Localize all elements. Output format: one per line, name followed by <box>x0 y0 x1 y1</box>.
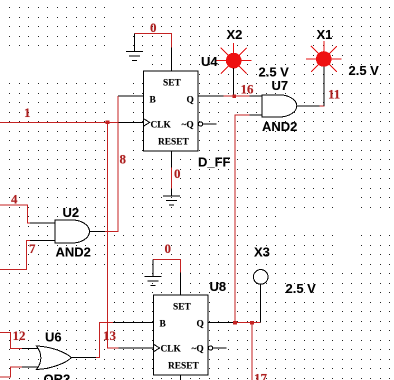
pin CLK stub <box>119 121 144 123</box>
wire U7 input B from U8 Q <box>235 115 250 322</box>
svg-text:U2: U2 <box>63 205 80 220</box>
svg-text:D_FF: D_FF <box>198 155 231 170</box>
junction net 17 b <box>250 321 254 325</box>
wire net 17 (U8 Q, X3, down) <box>234 323 261 380</box>
X1 pin stub <box>323 67 325 106</box>
pin B stub <box>118 95 144 97</box>
svg-text:16: 16 <box>241 81 255 96</box>
svg-text:OR2: OR2 <box>44 372 71 380</box>
U6 input stubs <box>22 348 40 350</box>
svg-text:0: 0 <box>165 241 172 256</box>
U7 output stub <box>297 105 320 107</box>
U8 pin Q stub <box>208 322 234 324</box>
svg-text:2.5 V: 2.5 V <box>286 281 317 296</box>
U6 output stub <box>72 357 97 359</box>
wire net 1 vertical down to U8 CLK <box>108 122 119 348</box>
pin ~Q stub <box>203 123 217 125</box>
AND gate U7 <box>250 95 320 117</box>
probe X3 <box>253 270 268 285</box>
wire net 4 entry <box>0 205 30 223</box>
X3 pin stub <box>260 284 262 322</box>
ground symbol above U8 <box>145 259 162 285</box>
U8 clock wedge <box>154 344 160 352</box>
ground symbol below top flip-flop <box>163 189 180 206</box>
U7 body <box>262 95 297 117</box>
U2 output stub <box>90 231 106 233</box>
svg-text:Q: Q <box>197 320 204 330</box>
svg-text:12: 12 <box>13 328 26 343</box>
svg-text:U7: U7 <box>272 78 289 93</box>
X2 pin stub <box>233 68 235 96</box>
U7 input stubs <box>250 95 263 97</box>
wire bottom entry to U6 input B <box>0 367 22 377</box>
svg-text:RESET: RESET <box>168 362 199 372</box>
wire net 7 entry <box>0 241 30 270</box>
U8 pin ~Q bubble <box>209 346 213 350</box>
svg-text:13: 13 <box>103 328 117 343</box>
svg-text:X3: X3 <box>254 245 270 260</box>
svg-text:7: 7 <box>29 241 36 256</box>
svg-text:B: B <box>150 96 156 106</box>
LED probe X1 <box>306 41 342 72</box>
U2 body <box>55 220 90 243</box>
svg-text:U4: U4 <box>201 54 218 69</box>
svg-text:CLK: CLK <box>151 121 172 131</box>
AND gate U2 <box>30 220 105 243</box>
svg-text:AND2: AND2 <box>262 119 297 134</box>
junction net 16 <box>232 94 236 98</box>
svg-text:X2: X2 <box>227 27 243 42</box>
D flip-flop U8 body <box>113 273 234 380</box>
junction net 1 <box>106 121 110 125</box>
svg-text:4: 4 <box>11 192 18 207</box>
wire net 0 mid (RESET to ground) <box>171 168 173 189</box>
svg-text:17: 17 <box>254 371 268 380</box>
LED probe X2 <box>216 43 252 74</box>
svg-text:2.5 V: 2.5 V <box>349 63 380 78</box>
junction net 17 a <box>233 321 237 325</box>
svg-text:Q: Q <box>187 96 194 106</box>
ground symbol top-left <box>126 34 143 61</box>
svg-text:11: 11 <box>328 87 340 102</box>
U8 pin SET stub <box>180 273 182 296</box>
svg-text:U8: U8 <box>210 279 227 294</box>
U6 body <box>37 346 72 370</box>
wire net 16 (Q to U7 input A) <box>224 95 250 97</box>
wire net 13 (U6 out to U8 B) <box>96 323 113 358</box>
svg-text:B: B <box>160 320 166 330</box>
svg-text:8: 8 <box>120 152 127 167</box>
wire net 11 (U7 out to X1) <box>320 104 325 106</box>
svg-text:CLK: CLK <box>161 345 182 355</box>
svg-text:SET: SET <box>163 79 181 89</box>
U8 pin B stub <box>113 322 154 324</box>
U8 pin RESET stub <box>180 375 182 380</box>
svg-text:X1: X1 <box>317 27 333 42</box>
svg-text:0: 0 <box>174 166 181 181</box>
pin SET stub <box>171 48 173 72</box>
wire net 0 top (ground to SET of top flip-flop) <box>134 34 171 48</box>
U2 input stubs <box>30 222 55 224</box>
svg-text:~Q: ~Q <box>192 345 204 355</box>
svg-text:SET: SET <box>173 303 191 313</box>
wire net 0 (U8 SET to ground) <box>153 259 181 272</box>
U8 pin CLK stub <box>119 347 154 349</box>
wire net 12 entry <box>0 332 22 348</box>
D flip-flop top (D_FF) body <box>118 48 224 168</box>
U8 pin ~Q stub <box>213 347 227 349</box>
svg-text:U6: U6 <box>45 330 62 345</box>
svg-text:AND2: AND2 <box>56 245 91 260</box>
OR gate U6 <box>22 346 96 370</box>
wire net 1 (horizontal into CLK) <box>0 122 119 348</box>
svg-text:~Q: ~Q <box>182 121 194 131</box>
svg-text:1: 1 <box>24 105 31 120</box>
pin RESET stub <box>171 151 173 168</box>
svg-text:RESET: RESET <box>158 138 189 148</box>
wire net 8 (U2 output up to B) <box>105 96 118 232</box>
svg-text:0: 0 <box>150 20 157 35</box>
pin Q stub <box>198 95 224 97</box>
clock wedge <box>144 119 150 127</box>
pin ~Q bubble <box>199 122 203 126</box>
